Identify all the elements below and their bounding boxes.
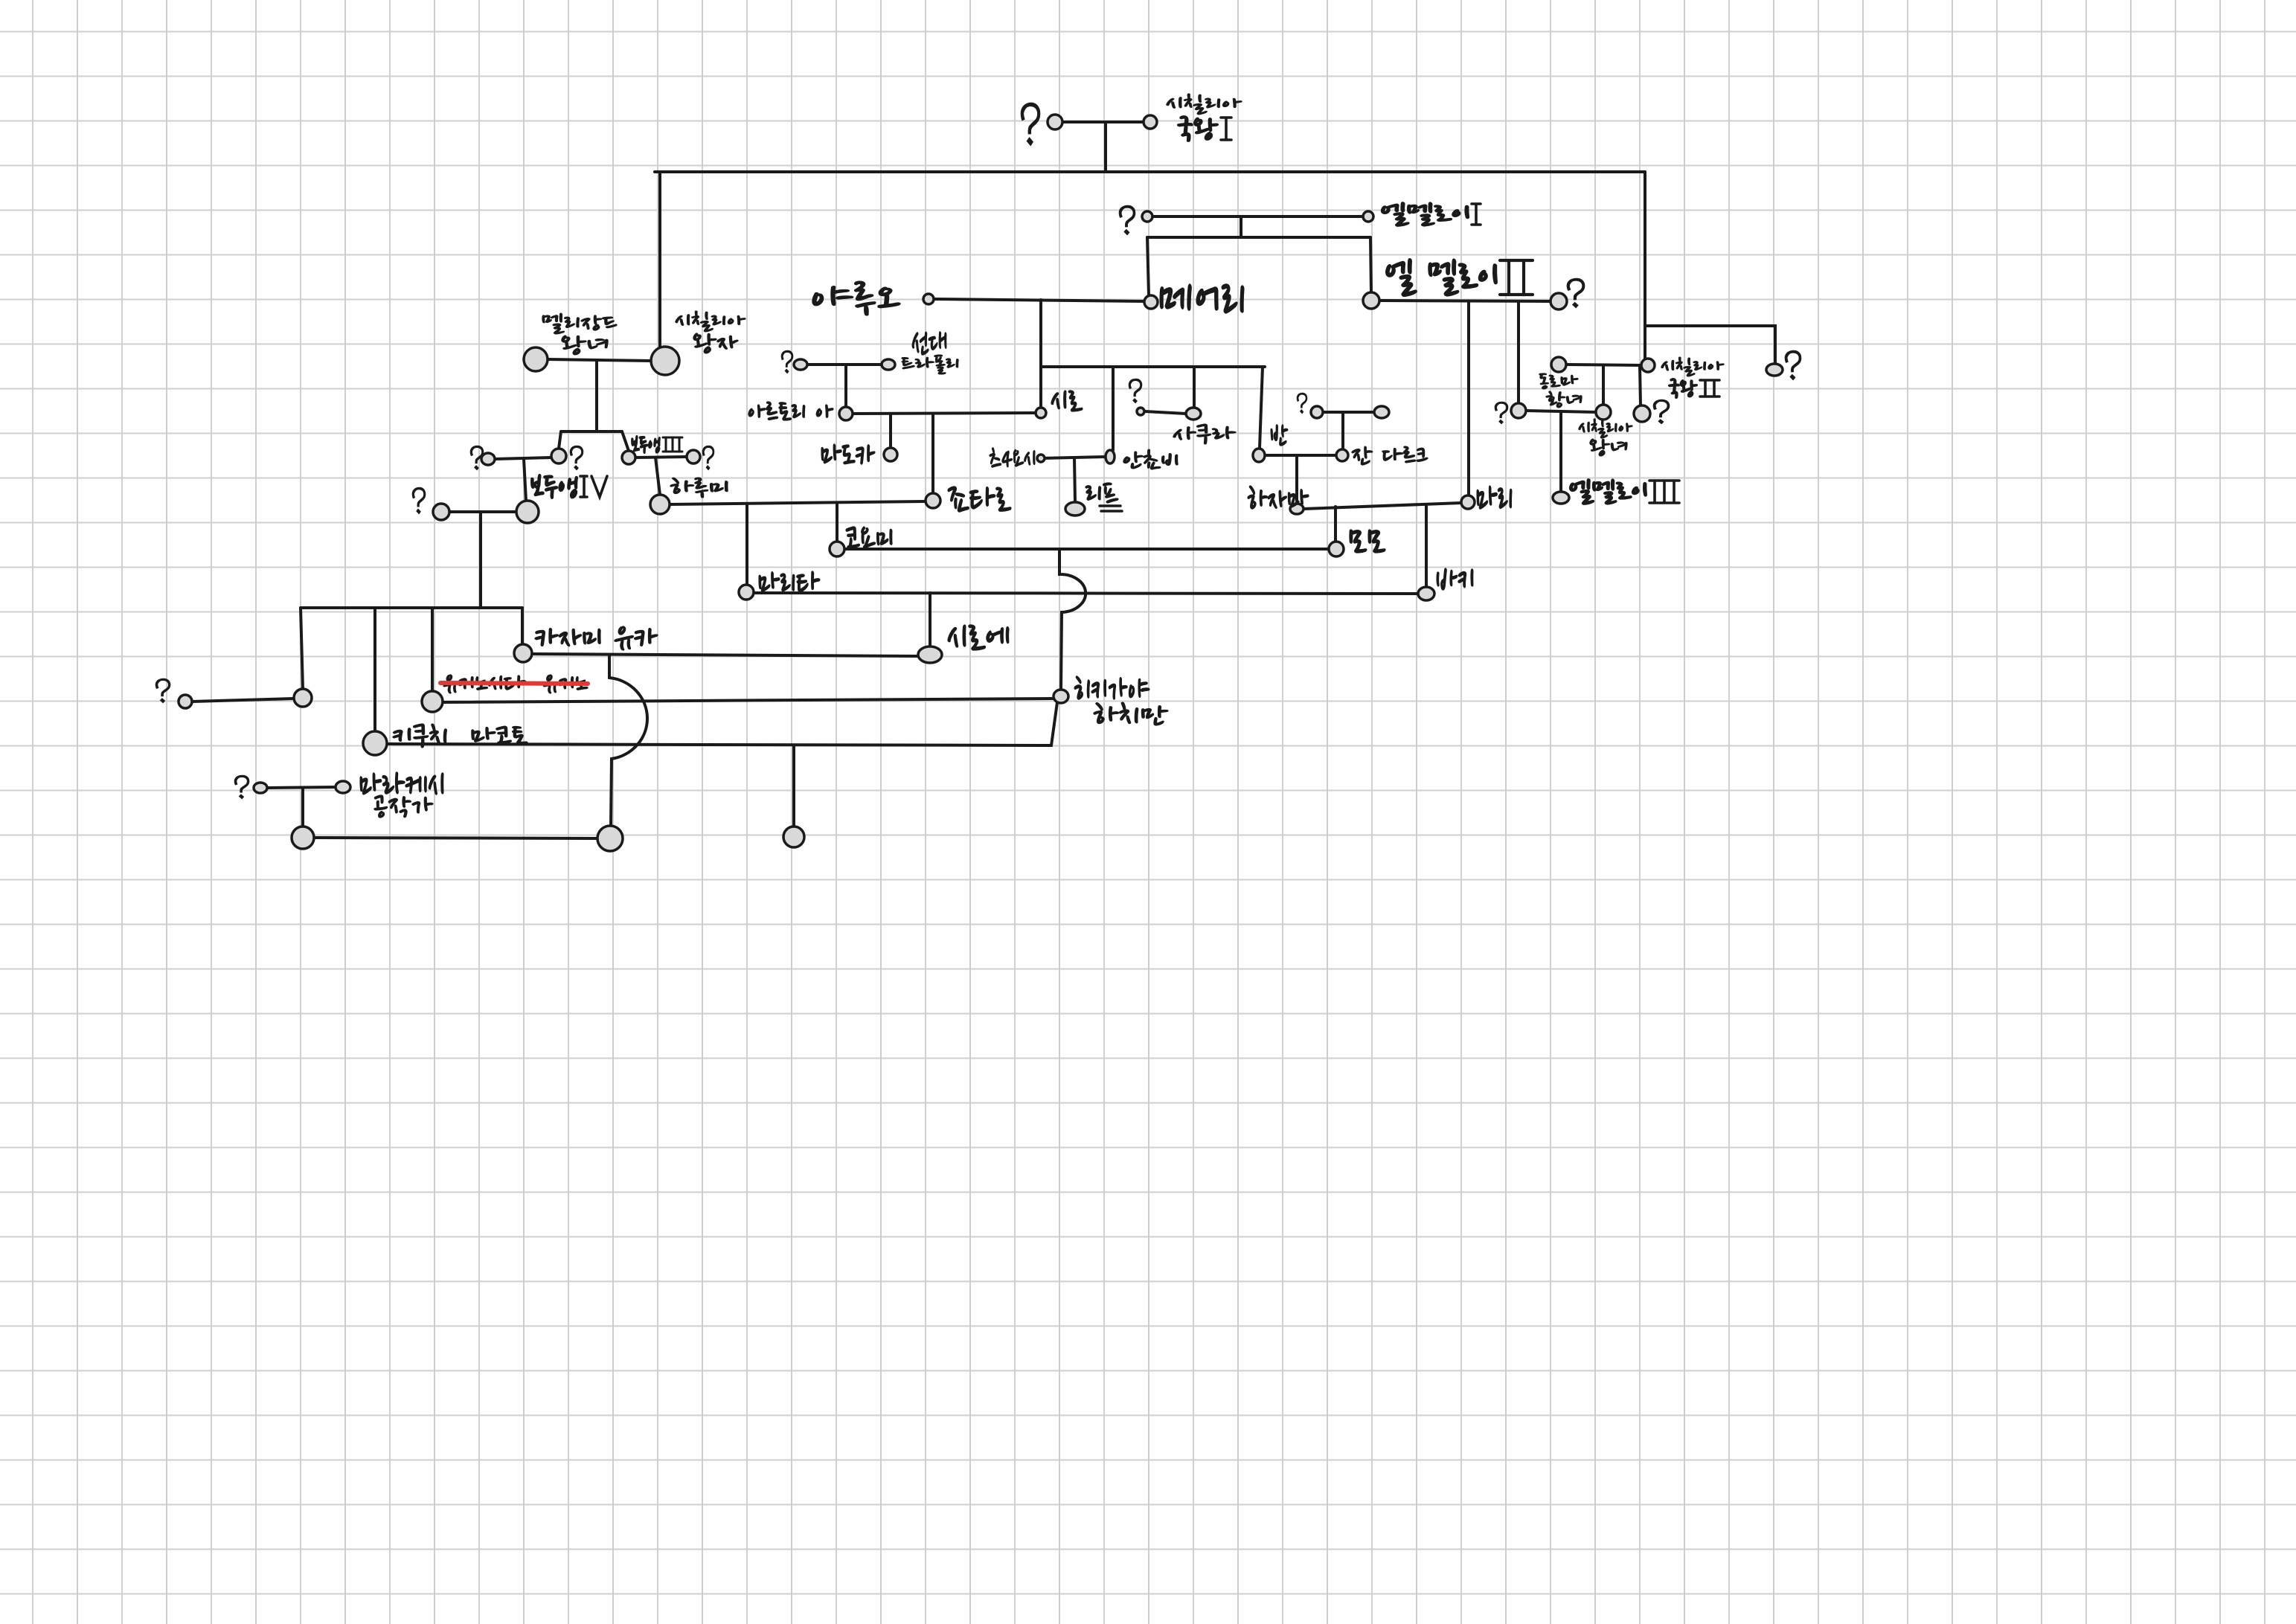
wire couple 엘멜로이Ⅱ+?	[1379, 301, 1551, 301]
node 보두앵Ⅳ	[516, 501, 539, 523]
wire to 마리	[1467, 301, 1470, 495]
label 바키	[1437, 568, 1473, 590]
node 시칠리아 국왕Ⅱ	[1641, 359, 1655, 372]
label ?	[570, 446, 583, 470]
label 메어리	[1160, 284, 1244, 313]
wire couple 반+잔다르크	[1265, 454, 1336, 457]
wire to 카자미유카	[521, 608, 524, 644]
wire drop	[1240, 216, 1242, 237]
wire couple 아르토리아+시로	[853, 413, 1036, 414]
node 안쵸비	[1106, 450, 1115, 463]
wire to child	[792, 745, 795, 826]
label ? top	[1021, 103, 1040, 146]
label 반	[1271, 425, 1288, 446]
wire couple 하루미+죠타로	[670, 501, 926, 504]
node 보두앵Ⅲ	[622, 451, 635, 464]
리프 double underline	[1100, 506, 1122, 511]
node child bottom left	[292, 827, 314, 849]
label 마리	[1477, 486, 1512, 509]
node ? spouse of 시칠리아왕녀	[1511, 403, 1526, 418]
node 동로마 황녀	[1551, 357, 1566, 372]
label 선대	[912, 332, 946, 355]
wire couple 카자미유카+시로에	[532, 654, 918, 656]
wire to 리프	[1074, 458, 1075, 501]
wire to 코요미	[836, 503, 838, 542]
label 왕녀	[562, 336, 608, 355]
wire to 모모	[1334, 507, 1337, 541]
label ?	[1785, 350, 1801, 380]
label 히키가야	[1074, 676, 1149, 699]
node 하자마	[1290, 504, 1303, 514]
node ? spouse of 보두앵Ⅲ	[687, 450, 700, 463]
label ?	[1495, 402, 1508, 424]
wire bus 메어리 children	[1041, 365, 1265, 368]
node 츠나요시	[1037, 455, 1045, 462]
wire to 엘멜로이Ⅱ	[1370, 237, 1371, 292]
label 시칠리아	[1167, 94, 1242, 115]
node 코요미	[830, 542, 844, 556]
node 멜리장드 왕녀	[524, 347, 548, 371]
node child bottom mid	[597, 826, 623, 851]
wire drop to bus	[479, 512, 482, 608]
node 죠타로	[926, 493, 940, 508]
label 야루오	[812, 281, 900, 315]
label 마라케시	[360, 772, 443, 795]
wire couple 마리타+바키	[754, 593, 1418, 594]
wire couple 야루오+메어리	[934, 299, 1144, 301]
label 리프	[1086, 483, 1118, 503]
node ? teardrop	[254, 783, 267, 793]
wire bus 엘멜로이Ⅰ children	[1147, 236, 1370, 239]
wire couple 보두앵Ⅲ+?	[635, 457, 687, 458]
wire bus 보두앵Ⅳ children	[301, 606, 522, 609]
label ?	[155, 678, 170, 703]
wire to 키쿠치마코토	[373, 608, 376, 731]
node 잔다르크	[1336, 449, 1348, 461]
label ?	[1297, 393, 1307, 414]
wire couple ?+?	[495, 458, 551, 459]
node child bottom right	[783, 827, 804, 847]
wire drop to 시로	[1039, 300, 1042, 408]
wire to child with hop	[609, 655, 647, 826]
label ?	[1653, 399, 1670, 424]
wire to 시칠리아왕자	[658, 172, 661, 347]
node ? far right	[1766, 364, 1783, 376]
wire to 마도카	[889, 414, 892, 447]
node 모모	[1329, 542, 1344, 556]
label ?	[1119, 205, 1135, 235]
label 유키노시타 유키노	[443, 675, 588, 693]
wire couple 츠나요시+안쵸비	[1041, 457, 1106, 458]
node ? top	[1048, 115, 1062, 129]
label 시로	[1051, 391, 1083, 411]
label 잔 다르크	[1352, 446, 1428, 465]
label 카자미 유카	[535, 626, 658, 650]
wire to child	[301, 788, 304, 826]
label 엘멜로이I	[1382, 202, 1469, 226]
label 트라폴리	[902, 355, 958, 374]
wire couple ?+?	[1323, 411, 1375, 414]
wire couple 유키노시타+히키가야	[440, 699, 1054, 702]
node child of 멜리장드	[551, 449, 566, 463]
wire couple ?+선대트라폴리	[808, 363, 882, 366]
wire to 시칠리아왕녀	[1602, 365, 1605, 405]
wire couple ?+child	[192, 699, 294, 702]
label 국왕I	[1178, 116, 1218, 141]
node 시로에	[918, 646, 942, 663]
wire to 유키노시타	[431, 608, 434, 691]
wire to 메어리	[1147, 237, 1149, 295]
label 키쿠치 마코토	[393, 724, 527, 748]
node 키쿠치 마코토	[363, 731, 387, 755]
wire to 보두앵Ⅳ	[524, 459, 526, 501]
node 시칠리아 국왕Ⅰ	[1144, 115, 1157, 129]
label 마리타	[759, 571, 820, 592]
wire to 하루미	[655, 458, 660, 495]
label 사쿠라	[1173, 424, 1236, 444]
node ? far left	[179, 695, 192, 708]
label ?	[1129, 379, 1142, 403]
wire couple ?+마라케시공작가	[267, 787, 336, 788]
node 카자미 유카	[514, 644, 532, 662]
node 히키가야 하치만	[1054, 690, 1068, 703]
wire branch to ?	[1645, 326, 1775, 363]
wire top children bus	[655, 170, 1645, 173]
wire to ?	[1517, 301, 1520, 403]
label 안쵸비	[1123, 449, 1178, 469]
wire to 바키	[1425, 506, 1428, 586]
node 엘멜로이Ⅰ	[1363, 211, 1373, 222]
wire couple 멜리장드+시칠리아왕자	[548, 359, 651, 361]
label 황녀	[1546, 391, 1582, 408]
label 왕자	[693, 333, 738, 353]
node 야루오	[923, 294, 934, 304]
node 메어리	[1144, 295, 1158, 309]
wire to 시칠리아국왕Ⅱ	[1644, 172, 1646, 359]
wire to child	[559, 431, 561, 449]
node 사쿠라	[1186, 408, 1201, 420]
wire couple 코요미+모모	[844, 548, 1329, 551]
label ?	[702, 446, 714, 470]
wire to child	[301, 608, 303, 689]
wire couple ?+보두앵Ⅳ	[449, 510, 516, 513]
node 아르토리아	[839, 407, 853, 420]
wire to 하자마	[1295, 455, 1298, 503]
wire to 시로에	[929, 593, 931, 646]
node ? teardrop	[481, 453, 495, 465]
label 츠4요시	[990, 448, 1035, 467]
wire to 엘멜로이Ⅲ	[1559, 412, 1562, 491]
node child A	[294, 689, 312, 707]
node ? wife of 엘멜로이Ⅱ	[1551, 293, 1567, 309]
node ? child	[1634, 405, 1650, 422]
label ?	[1567, 278, 1585, 308]
label 코요미	[846, 527, 892, 548]
label 시칠리아 왕녀 l1	[1579, 419, 1632, 438]
label ?	[234, 775, 249, 799]
wire couple ?+사쿠라	[1145, 411, 1186, 414]
label ?	[470, 446, 484, 470]
label 보두앵III	[632, 436, 660, 453]
wire couple 하자마+마리	[1303, 503, 1461, 509]
node 엘멜로이Ⅲ	[1553, 492, 1569, 504]
node 마리타	[739, 585, 754, 600]
label 보두앵IV	[531, 475, 577, 498]
label 엘 멜로이II	[1386, 259, 1497, 296]
wire drop	[595, 361, 598, 431]
label 동로마	[1539, 373, 1578, 389]
wire couple ?+시칠리아국왕Ⅰ	[1062, 121, 1144, 123]
node ? wife of 선대트라폴리	[794, 359, 807, 370]
wire to 죠타로	[931, 414, 934, 493]
wire to 반	[1260, 367, 1263, 448]
node 마리	[1461, 495, 1475, 509]
node 시로	[1036, 408, 1046, 418]
node 선대 트라폴리	[882, 359, 895, 370]
node ? father of 잔다르크	[1311, 406, 1323, 418]
label ?	[412, 487, 426, 514]
label 공작가	[374, 795, 433, 818]
wire bus 멜리장드 children	[561, 430, 622, 433]
label 하치만	[1094, 702, 1168, 725]
node 리프	[1065, 502, 1085, 516]
strikethrough red line over 유키노시타 유키노	[440, 683, 588, 684]
node 시칠리아 왕녀	[1596, 405, 1611, 420]
wire to 잔다르크	[1341, 412, 1344, 449]
label ?	[781, 350, 793, 373]
wire couple 키쿠치마코토+히키가야	[387, 702, 1057, 745]
node 시칠리아 왕자	[651, 347, 679, 375]
node ?	[1142, 211, 1152, 222]
label 모모	[1350, 530, 1385, 553]
wire couple ?+시칠리아왕녀	[1526, 411, 1596, 412]
node 마라케시 공작가	[336, 781, 350, 793]
label 엘멜로이III	[1570, 479, 1646, 504]
label 죠타로	[948, 487, 1011, 512]
node 하루미	[650, 495, 670, 514]
node 유키노시타	[422, 691, 443, 712]
wire to 안쵸비	[1112, 367, 1115, 450]
label 국왕II	[1669, 379, 1697, 398]
wire drop to top bus	[1104, 122, 1107, 172]
node mother of 잔다르크	[1374, 406, 1389, 418]
label 멜리장드	[542, 313, 617, 334]
node ? spouse of 사쿠라	[1137, 408, 1144, 415]
node ? wife of 보두앵Ⅳ	[433, 504, 449, 520]
label 아르토리 아	[748, 402, 833, 420]
label 하자마	[1248, 486, 1309, 509]
wire to 보두앵Ⅲ	[622, 431, 629, 451]
wire couple bottom	[315, 838, 597, 838]
label 시칠리아 국왕Ⅱ l1	[1661, 357, 1724, 376]
label 마도카	[821, 444, 875, 464]
wire to 아르토리아	[844, 365, 847, 407]
wire couple ?+엘멜로이Ⅰ	[1152, 215, 1363, 218]
node 반	[1253, 449, 1265, 462]
label 시로에	[948, 625, 1009, 650]
node 엘멜로이Ⅱ	[1363, 292, 1379, 309]
node 마도카	[884, 448, 897, 461]
label 시칠리아 왕자 l1	[676, 311, 745, 332]
wire to ?	[1640, 365, 1641, 405]
wire to 사쿠라	[1193, 367, 1196, 407]
wire couple 동로마황녀+시칠리아국왕Ⅱ	[1566, 365, 1641, 365]
wire to 마리타	[745, 504, 748, 585]
label 시칠리아 왕녀 l2	[1590, 439, 1627, 456]
wire to 히키가야 with hop	[1059, 549, 1086, 690]
label 하루미	[670, 478, 728, 498]
node 바키	[1418, 587, 1434, 600]
